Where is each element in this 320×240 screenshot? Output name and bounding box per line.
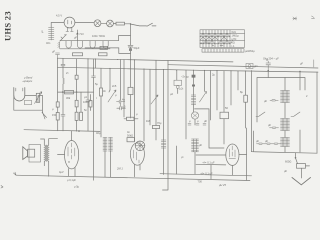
svg-text:μ7Ω: μ7Ω	[232, 37, 237, 41]
lamp E2	[107, 20, 114, 27]
wire	[38, 96, 43, 113]
coil L2	[63, 78, 64, 84]
capacitor C1 electrolytic	[128, 45, 133, 52]
grid wire	[58, 91, 94, 93]
transformer T3 winding 3	[281, 138, 290, 147]
tube socket	[191, 112, 198, 119]
tube V3	[65, 141, 79, 169]
svg-text:τ: τ	[96, 97, 97, 100]
heater bus wire	[60, 36, 131, 41]
antenna hook	[14, 88, 25, 102]
speaker	[23, 147, 28, 160]
switch S5	[200, 92, 207, 103]
wire	[230, 71, 232, 105]
capacitor C6	[117, 100, 125, 103]
wire	[25, 95, 36, 97]
svg-text:μ2τ: μ2τ	[180, 87, 184, 91]
resistor R19	[80, 112, 83, 120]
box component	[174, 80, 182, 85]
svg-text:Oka 204 ~ μF: Oka 204 ~ μF	[263, 57, 279, 61]
tube V2	[130, 143, 144, 165]
wire	[176, 146, 178, 174]
svg-text:~εpatμnε: ~εpatμnε	[22, 79, 33, 83]
svg-text:⊣⊢ 0,1 μF: ⊣⊢ 0,1 μF	[200, 171, 213, 175]
wire	[316, 72, 318, 153]
resistor R13	[245, 71, 247, 95]
svg-text:μF: μF	[204, 119, 207, 123]
wire	[57, 58, 59, 102]
wire	[176, 70, 178, 80]
wire rail C	[196, 163, 226, 166]
wire	[149, 69, 151, 125]
wire	[51, 23, 64, 28]
resistor R18	[75, 112, 78, 120]
svg-text:30k: 30k	[66, 96, 71, 100]
node	[295, 157, 297, 159]
capacitor row	[188, 124, 206, 126]
wire	[163, 61, 169, 191]
bus B	[58, 67, 319, 72]
coil L5	[192, 139, 199, 152]
wire junction	[125, 23, 131, 25]
left components above bus	[56, 53, 60, 58]
heater return wire	[60, 48, 110, 50]
svg-text:1MΩg: 1MΩg	[232, 33, 240, 37]
wire rail B	[160, 174, 252, 176]
coil L1 antenna rod	[49, 27, 54, 40]
capacitor C11	[270, 100, 278, 102]
svg-text:μF: μF	[199, 143, 202, 147]
svg-text:2τ: 2τ	[66, 71, 68, 75]
resistor R20	[89, 101, 92, 108]
wire	[284, 78, 286, 119]
resistor R1	[116, 22, 125, 25]
svg-text:100n: 100n	[83, 100, 89, 104]
svg-text:μF: μF	[265, 139, 268, 143]
tube V2 top circle	[135, 141, 145, 151]
wire	[105, 152, 111, 178]
IF transformer T1	[103, 138, 113, 152]
svg-text:UHS 23: UHS 23	[3, 11, 13, 41]
capacitor C12	[270, 127, 279, 129]
svg-text:70μ: 70μ	[157, 121, 162, 125]
svg-text:gΩ: gΩ	[254, 64, 257, 68]
svg-text:~2τ μμ: ~2τ μμ	[181, 75, 189, 79]
svg-text:μF: μF	[300, 62, 303, 66]
wire	[101, 22, 107, 24]
capacitor C10	[266, 59, 271, 70]
switch S8	[151, 95, 158, 104]
resistor R8	[100, 46, 108, 49]
table number strip	[202, 49, 244, 52]
svg-text:μτ: μτ	[181, 156, 184, 159]
capacitor C4	[86, 100, 90, 102]
svg-text:1M: 1M	[146, 119, 150, 123]
switch S4	[108, 90, 116, 102]
wire	[155, 60, 157, 125]
transformer wires	[41, 139, 58, 177]
svg-text:⊣⊢ 0,1 μF: ⊣⊢ 0,1 μF	[202, 161, 215, 165]
svg-text:5μ: 5μ	[95, 82, 98, 86]
tube V1	[64, 17, 75, 28]
coil L4	[191, 95, 196, 105]
wire	[120, 60, 122, 100]
svg-text:μ Band: μ Band	[23, 76, 33, 80]
socket U-shapes	[66, 41, 71, 48]
extra labels	[52, 71, 308, 159]
svg-text:50μF: 50μF	[134, 46, 140, 50]
svg-text:kΩ: kΩ	[232, 40, 235, 44]
resistor R5	[56, 112, 59, 120]
wire	[113, 23, 116, 25]
svg-text:8μ: 8μ	[240, 90, 243, 94]
svg-text:4τ 713: 4τ 713	[76, 32, 84, 36]
svg-text:μαWΩtμ: μαWΩtμ	[245, 49, 255, 53]
inner box top	[257, 78, 305, 123]
svg-text:μ 0,1μF: μ 0,1μF	[67, 178, 76, 182]
resistor R14	[297, 164, 306, 169]
svg-text:μF: μF	[256, 139, 259, 143]
wire	[237, 71, 239, 90]
resistor R10	[153, 125, 160, 128]
transformer T4	[44, 145, 45, 161]
ground hatch	[58, 42, 60, 49]
capacitor C7	[117, 103, 126, 110]
wire	[95, 59, 97, 68]
svg-text:4μV: 4μV	[59, 170, 64, 174]
wire	[143, 69, 145, 141]
asterisk mark	[293, 17, 297, 20]
variable resistor	[36, 93, 39, 102]
resistor R7	[100, 88, 103, 96]
lamp E1	[94, 20, 101, 27]
bottom rail of block	[252, 152, 318, 154]
wire	[134, 60, 136, 141]
svg-text:μF: μF	[268, 123, 271, 127]
tick	[313, 60, 315, 67]
tube V3 wires	[58, 131, 76, 176]
ground	[292, 178, 311, 185]
svg-text:μF: μF	[52, 50, 55, 54]
svg-text:2M 1: 2M 1	[116, 167, 123, 171]
svg-text:40μ: 40μ	[96, 131, 101, 135]
capacitor row C13 C14 C15	[257, 143, 266, 145]
switch S1	[131, 23, 156, 26]
resistor R17	[75, 100, 78, 107]
wire	[14, 96, 42, 111]
wire	[163, 70, 165, 141]
capacitor C3	[61, 115, 65, 117]
svg-text:μH 25: μH 25	[218, 183, 226, 187]
svg-text:2n5: 2n5	[112, 84, 117, 88]
wire	[253, 131, 255, 152]
wire	[301, 168, 303, 178]
svg-text:150: 150	[52, 113, 57, 117]
wire	[195, 109, 225, 148]
wire	[75, 22, 94, 24]
resistor R16	[75, 75, 78, 79]
wire rail A	[16, 175, 250, 180]
wire	[130, 52, 132, 87]
jack	[246, 64, 253, 69]
wire	[80, 92, 82, 112]
svg-text:4,5 V: 4,5 V	[56, 14, 62, 18]
top feed wire	[85, 48, 131, 54]
resistor R9	[127, 117, 135, 120]
speck top right	[312, 16, 315, 19]
svg-text:6xU: 6xU	[232, 30, 237, 34]
wire	[223, 71, 225, 112]
svg-text:600Ω: 600Ω	[285, 160, 291, 164]
switch S2	[60, 35, 67, 41]
wire	[123, 60, 125, 117]
switch S7	[291, 112, 300, 117]
svg-text:40n: 40n	[46, 41, 51, 45]
wire	[90, 95, 92, 101]
wire	[87, 59, 89, 100]
resistor R3	[99, 53, 108, 56]
transformer T3 winding 2	[281, 119, 290, 131]
wire	[210, 71, 212, 120]
capacitor C5	[92, 76, 96, 78]
tube V4	[226, 144, 239, 165]
bus C	[168, 65, 318, 68]
resistor R2	[73, 53, 83, 56]
wire	[210, 165, 212, 179]
wire	[100, 68, 102, 88]
X marks	[200, 33, 230, 37]
wire	[93, 59, 95, 76]
electrolytic C9	[193, 70, 195, 74]
svg-text:100n 700Ω: 100n 700Ω	[92, 34, 105, 38]
wire	[216, 71, 218, 110]
switch S3	[42, 112, 47, 119]
tube V4 wires	[196, 155, 247, 176]
wire	[267, 71, 269, 78]
svg-text:μ 5μ: μ 5μ	[74, 185, 80, 189]
bus A	[58, 58, 234, 62]
svg-text:2μ: 2μ	[212, 73, 215, 77]
svg-text:μF: μF	[74, 36, 77, 40]
box	[25, 100, 32, 104]
svg-text:700: 700	[198, 180, 203, 184]
svg-text:50kΩ: 50kΩ	[127, 134, 133, 138]
resistor R6	[65, 90, 74, 94]
resistor R11	[127, 138, 135, 142]
wire	[251, 71, 253, 152]
resistor R4	[56, 102, 59, 107]
resistor R15	[128, 87, 133, 94]
wire	[246, 128, 248, 180]
resistor R12	[220, 112, 229, 119]
wire	[109, 68, 111, 90]
switch S6	[256, 112, 265, 117]
small mark left edge	[1, 186, 3, 189]
wire	[130, 24, 132, 45]
node	[77, 33, 78, 34]
wire	[299, 72, 301, 153]
svg-text:μF: μF	[284, 169, 287, 173]
svg-text:μF: μF	[264, 99, 267, 103]
wire	[62, 58, 64, 64]
wire y130	[24, 130, 100, 132]
switch table	[200, 30, 245, 48]
output transformer T3 winding 1	[281, 91, 290, 103]
junction dots	[87, 58, 246, 71]
capacitor C2	[61, 64, 65, 66]
coil L3	[161, 140, 166, 148]
svg-text:μτ: μτ	[41, 30, 44, 33]
wire	[135, 165, 141, 177]
wire	[185, 70, 187, 139]
wire	[76, 59, 78, 75]
